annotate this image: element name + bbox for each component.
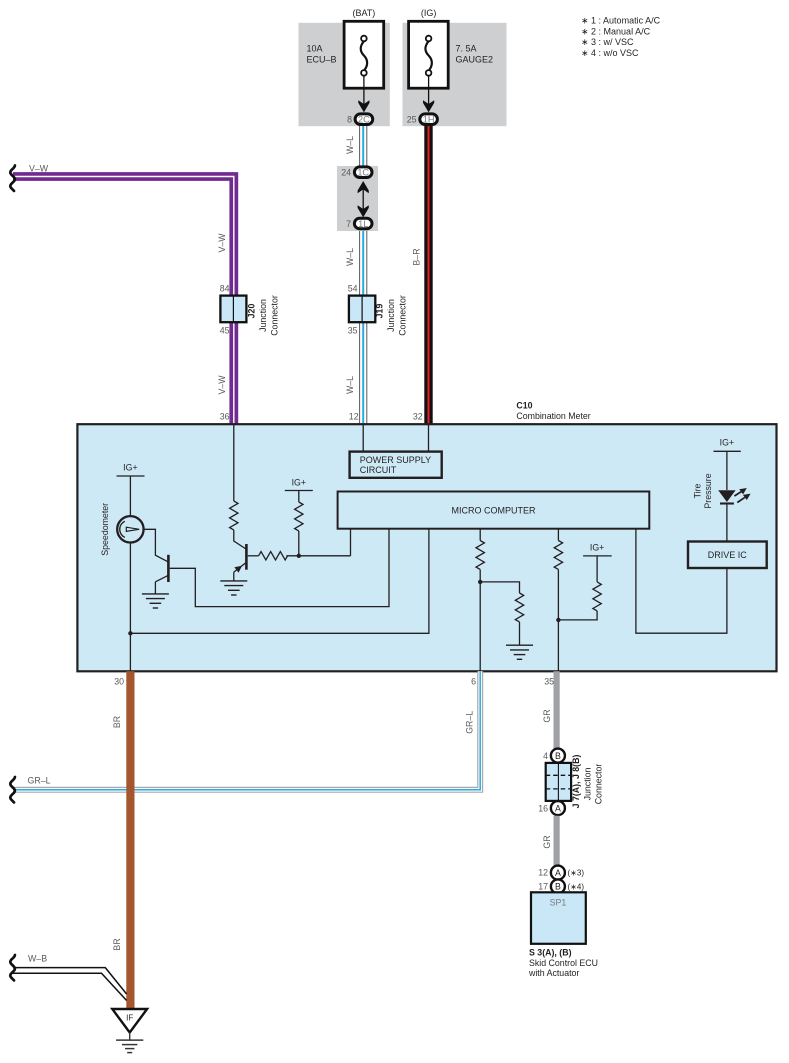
wire micro computer to resistor R6 (pin 35 branch) [557, 529, 559, 541]
resistor R1 [230, 501, 238, 530]
svg-text:(IG): (IG) [421, 8, 437, 18]
svg-text:GR–L: GR–L [465, 711, 475, 734]
IG+ rail 3 [583, 542, 612, 556]
wire fuse F1 to connector 2C [363, 76, 365, 108]
IG+ rail 4 (tire pressure) [714, 438, 741, 452]
wire W-L vertical (fuse to pin 12) [359, 122, 367, 424]
wire R4 to node B and down to pin 6 [479, 570, 481, 672]
svg-text:10A: 10A [307, 44, 323, 54]
transistor Q1 [155, 555, 168, 582]
speedometer M1 [117, 516, 143, 542]
resistor R6 [554, 541, 562, 570]
svg-text:ECU–B: ECU–B [307, 55, 337, 65]
gray in-harness connector box (1C/1L) [337, 166, 378, 231]
svg-text:12: 12 [349, 412, 359, 422]
wire pin36 into resistor R1 [233, 424, 235, 501]
svg-text:Combination Meter: Combination Meter [516, 411, 590, 421]
svg-text:(∗3): (∗3) [568, 869, 585, 878]
resistor R4 [476, 541, 484, 570]
svg-text:Connector: Connector [270, 295, 280, 336]
svg-text:12: 12 [538, 868, 548, 878]
wire node B to resistor R5 [480, 582, 519, 593]
svg-text:Junction: Junction [386, 299, 396, 332]
junction connector J19 [349, 296, 375, 323]
wire R1 to transistor Q2 collector [234, 530, 246, 549]
wire GR from pin 35 to junction connector [553, 671, 559, 750]
ground (Q1 emitter) [142, 594, 169, 608]
svg-text:IG+: IG+ [590, 542, 604, 552]
svg-text:GR: GR [542, 709, 552, 722]
IG+ rail 1 (speedometer) [117, 463, 145, 477]
wire R6 to node C and down to pin 35 [557, 570, 559, 672]
svg-text:Speedometer: Speedometer [100, 503, 110, 556]
node C junction dot [556, 618, 560, 622]
C10 combination meter box [77, 424, 776, 671]
svg-text:GAUGE2: GAUGE2 [456, 55, 494, 65]
svg-text:Connector: Connector [398, 295, 408, 336]
harness arrow into 2C [358, 100, 369, 112]
node D junction dot on speedometer line [128, 631, 132, 635]
svg-text:MICRO COMPUTER: MICRO COMPUTER [452, 505, 536, 515]
wire BR from pin 30 to ground IF [126, 671, 134, 1008]
svg-text:32: 32 [413, 412, 423, 422]
svg-text:1L: 1L [358, 219, 368, 229]
svg-text:45: 45 [220, 326, 230, 336]
svg-text:S 3(A), (B): S 3(A), (B) [529, 948, 572, 958]
harness arrow down into 1L [358, 205, 369, 217]
wire speedometer down to pin 30 [129, 543, 131, 672]
break symbol GR-L at left edge [10, 777, 15, 802]
svg-text:6: 6 [471, 677, 476, 687]
resistor R5 [515, 593, 523, 622]
svg-text:30: 30 [114, 677, 124, 687]
svg-text:BR: BR [112, 716, 122, 728]
fuse F2 7.5A GAUGE2 [409, 21, 449, 88]
harness arrow into 1H [423, 100, 434, 112]
wire IG+3 to resistor R7 [596, 556, 598, 582]
harness arrow up into 1C [358, 181, 369, 193]
ground (R5) [506, 645, 533, 659]
wire IG+2 to resistor R2 [298, 491, 300, 503]
svg-text:Tire: Tire [693, 483, 703, 498]
svg-text:25: 25 [407, 114, 417, 124]
svg-text:J20: J20 [247, 304, 257, 319]
connector oval 1H [420, 114, 438, 125]
wire pin12 to power supply circuit [362, 424, 364, 451]
wire micro computer to resistor R4 (pin 6 branch) [479, 529, 481, 541]
micro computer box U1 [338, 492, 650, 529]
svg-text:54: 54 [348, 284, 358, 294]
svg-text:B: B [555, 882, 561, 892]
junction connector J20 [220, 296, 246, 323]
svg-text:DRIVE IC: DRIVE IC [708, 550, 748, 560]
svg-text:(BAT): (BAT) [352, 8, 375, 18]
wire R7 to node C [558, 611, 597, 620]
wire V-W from left edge to pin 36 [13, 177, 234, 425]
resistor R7 [593, 582, 601, 611]
wire Q2 emitter to ground [233, 572, 235, 581]
svg-text:8: 8 [347, 114, 352, 124]
gray harness box right (GAUGE2 fuse area) [403, 23, 507, 126]
break symbol V-W at left edge [10, 166, 15, 191]
svg-text:J19: J19 [375, 304, 385, 319]
svg-text:GR: GR [542, 835, 552, 848]
wire Q2 base to resistor R3 [248, 555, 259, 557]
LED D1 tire pressure warning [718, 488, 750, 504]
wire R2 to node A [298, 531, 300, 556]
svg-text:W–L: W–L [345, 136, 355, 154]
transistor Q2 [234, 544, 247, 573]
ground (Q2 emitter) [220, 581, 247, 595]
svg-text:16: 16 [538, 803, 548, 813]
wire R3 to node A [286, 555, 350, 557]
wire Q1 emitter to ground [154, 582, 156, 594]
wire GR junction connector to skid control ECU [553, 816, 559, 866]
svg-text:∗ 2 : Manual A/C: ∗ 2 : Manual A/C [581, 26, 651, 36]
ground IF [112, 1009, 147, 1053]
svg-text:CIRCUIT: CIRCUIT [360, 465, 397, 475]
svg-text:IG+: IG+ [720, 438, 734, 448]
wire fuse F2 to connector 1H [428, 76, 430, 108]
svg-text:SP1: SP1 [550, 898, 567, 908]
svg-text:W–L: W–L [345, 248, 355, 266]
svg-text:Junction: Junction [258, 299, 268, 332]
connector oval B (J7/J8 top) [551, 749, 565, 763]
svg-text:IG+: IG+ [123, 463, 137, 473]
connector oval 1L [354, 218, 372, 229]
svg-text:7: 7 [346, 219, 351, 229]
node A junction dot [297, 554, 301, 558]
svg-text:BR: BR [112, 938, 122, 950]
svg-text:A: A [555, 803, 561, 813]
svg-text:V–W: V–W [217, 233, 227, 253]
wire drive IC to micro computer [636, 529, 727, 633]
svg-text:with Actuator: with Actuator [528, 968, 579, 978]
svg-text:36: 36 [220, 412, 230, 422]
svg-text:1H: 1H [423, 115, 435, 125]
svg-text:17: 17 [538, 882, 548, 892]
resistor R3 (horizontal) [259, 552, 288, 560]
gray harness box left (ECU-B fuse area) [299, 23, 390, 126]
svg-text:35: 35 [544, 677, 554, 687]
svg-text:1C: 1C [357, 168, 369, 178]
connector oval A (skid ECU, *3) [551, 866, 565, 880]
svg-text:W–L: W–L [345, 376, 355, 394]
node B junction dot [478, 580, 482, 584]
wire micro computer to speedometer line (left branch) [130, 529, 429, 633]
svg-text:84: 84 [220, 284, 230, 294]
IG+ rail 2 [285, 477, 313, 490]
wire IG+4 to LED [726, 451, 728, 490]
svg-text:W–B: W–B [28, 954, 47, 964]
break symbol W-B at left edge [10, 955, 15, 980]
svg-text:4: 4 [543, 751, 548, 761]
wire between 1C and 1L [362, 183, 364, 213]
connector oval 1C [354, 167, 372, 178]
svg-text:POWER SUPPLY: POWER SUPPLY [360, 455, 431, 465]
wire GR-L from pin 6 to left edge [13, 671, 480, 790]
svg-text:IF: IF [126, 1014, 133, 1023]
junction connector J7(A) J8(B) [546, 763, 571, 801]
drive IC box U2 [688, 542, 767, 569]
resistor R2 [295, 502, 303, 531]
svg-text:B: B [555, 751, 561, 761]
svg-text:35: 35 [348, 326, 358, 336]
svg-text:GR–L: GR–L [28, 776, 51, 786]
svg-text:∗ 4 : w/o VSC: ∗ 4 : w/o VSC [581, 48, 639, 58]
wire W-B from left edge joining BR at ground [13, 968, 127, 1001]
svg-text:C10: C10 [516, 401, 532, 411]
svg-text:24: 24 [341, 168, 351, 178]
svg-text:∗ 1 : Automatic A/C: ∗ 1 : Automatic A/C [581, 16, 661, 26]
wire B-R vertical (fuse to pin 32) [424, 122, 432, 424]
svg-text:2C: 2C [358, 115, 370, 125]
svg-text:7. 5A: 7. 5A [456, 44, 477, 54]
skid control ECU box SP1 [531, 892, 586, 944]
svg-text:Skid Control ECU: Skid Control ECU [529, 958, 598, 968]
fuse F1 10A ECU-B [344, 21, 384, 88]
connector oval B (skid ECU, *4) [551, 879, 565, 893]
wire node A up to micro computer [350, 529, 352, 556]
wire LED to drive IC [726, 505, 728, 542]
svg-text:B–R: B–R [411, 248, 421, 265]
svg-text:A: A [555, 868, 561, 878]
svg-text:(∗4): (∗4) [568, 883, 585, 892]
svg-text:V–W: V–W [217, 375, 227, 395]
svg-text:Junction: Junction [583, 768, 593, 801]
connector oval A (J7/J8 bottom) [551, 801, 565, 815]
svg-text:∗ 3 : w/ VSC: ∗ 3 : w/ VSC [581, 37, 634, 47]
wire speedometer to transistor Q1 [144, 529, 168, 562]
svg-text:J 7(A), J 8(B): J 7(A), J 8(B) [571, 755, 581, 809]
wire IG+1 to speedometer [129, 476, 131, 516]
svg-text:V–W: V–W [29, 164, 49, 174]
power supply circuit box [350, 452, 442, 478]
wire Q1 base to micro computer [170, 529, 389, 607]
connector oval 2C [355, 114, 373, 125]
wire R5 to ground [519, 622, 521, 645]
svg-text:IG+: IG+ [292, 477, 306, 487]
svg-text:Connector: Connector [594, 764, 604, 805]
wire pin32 to power supply circuit [428, 424, 430, 451]
svg-text:Pressure: Pressure [703, 473, 713, 508]
